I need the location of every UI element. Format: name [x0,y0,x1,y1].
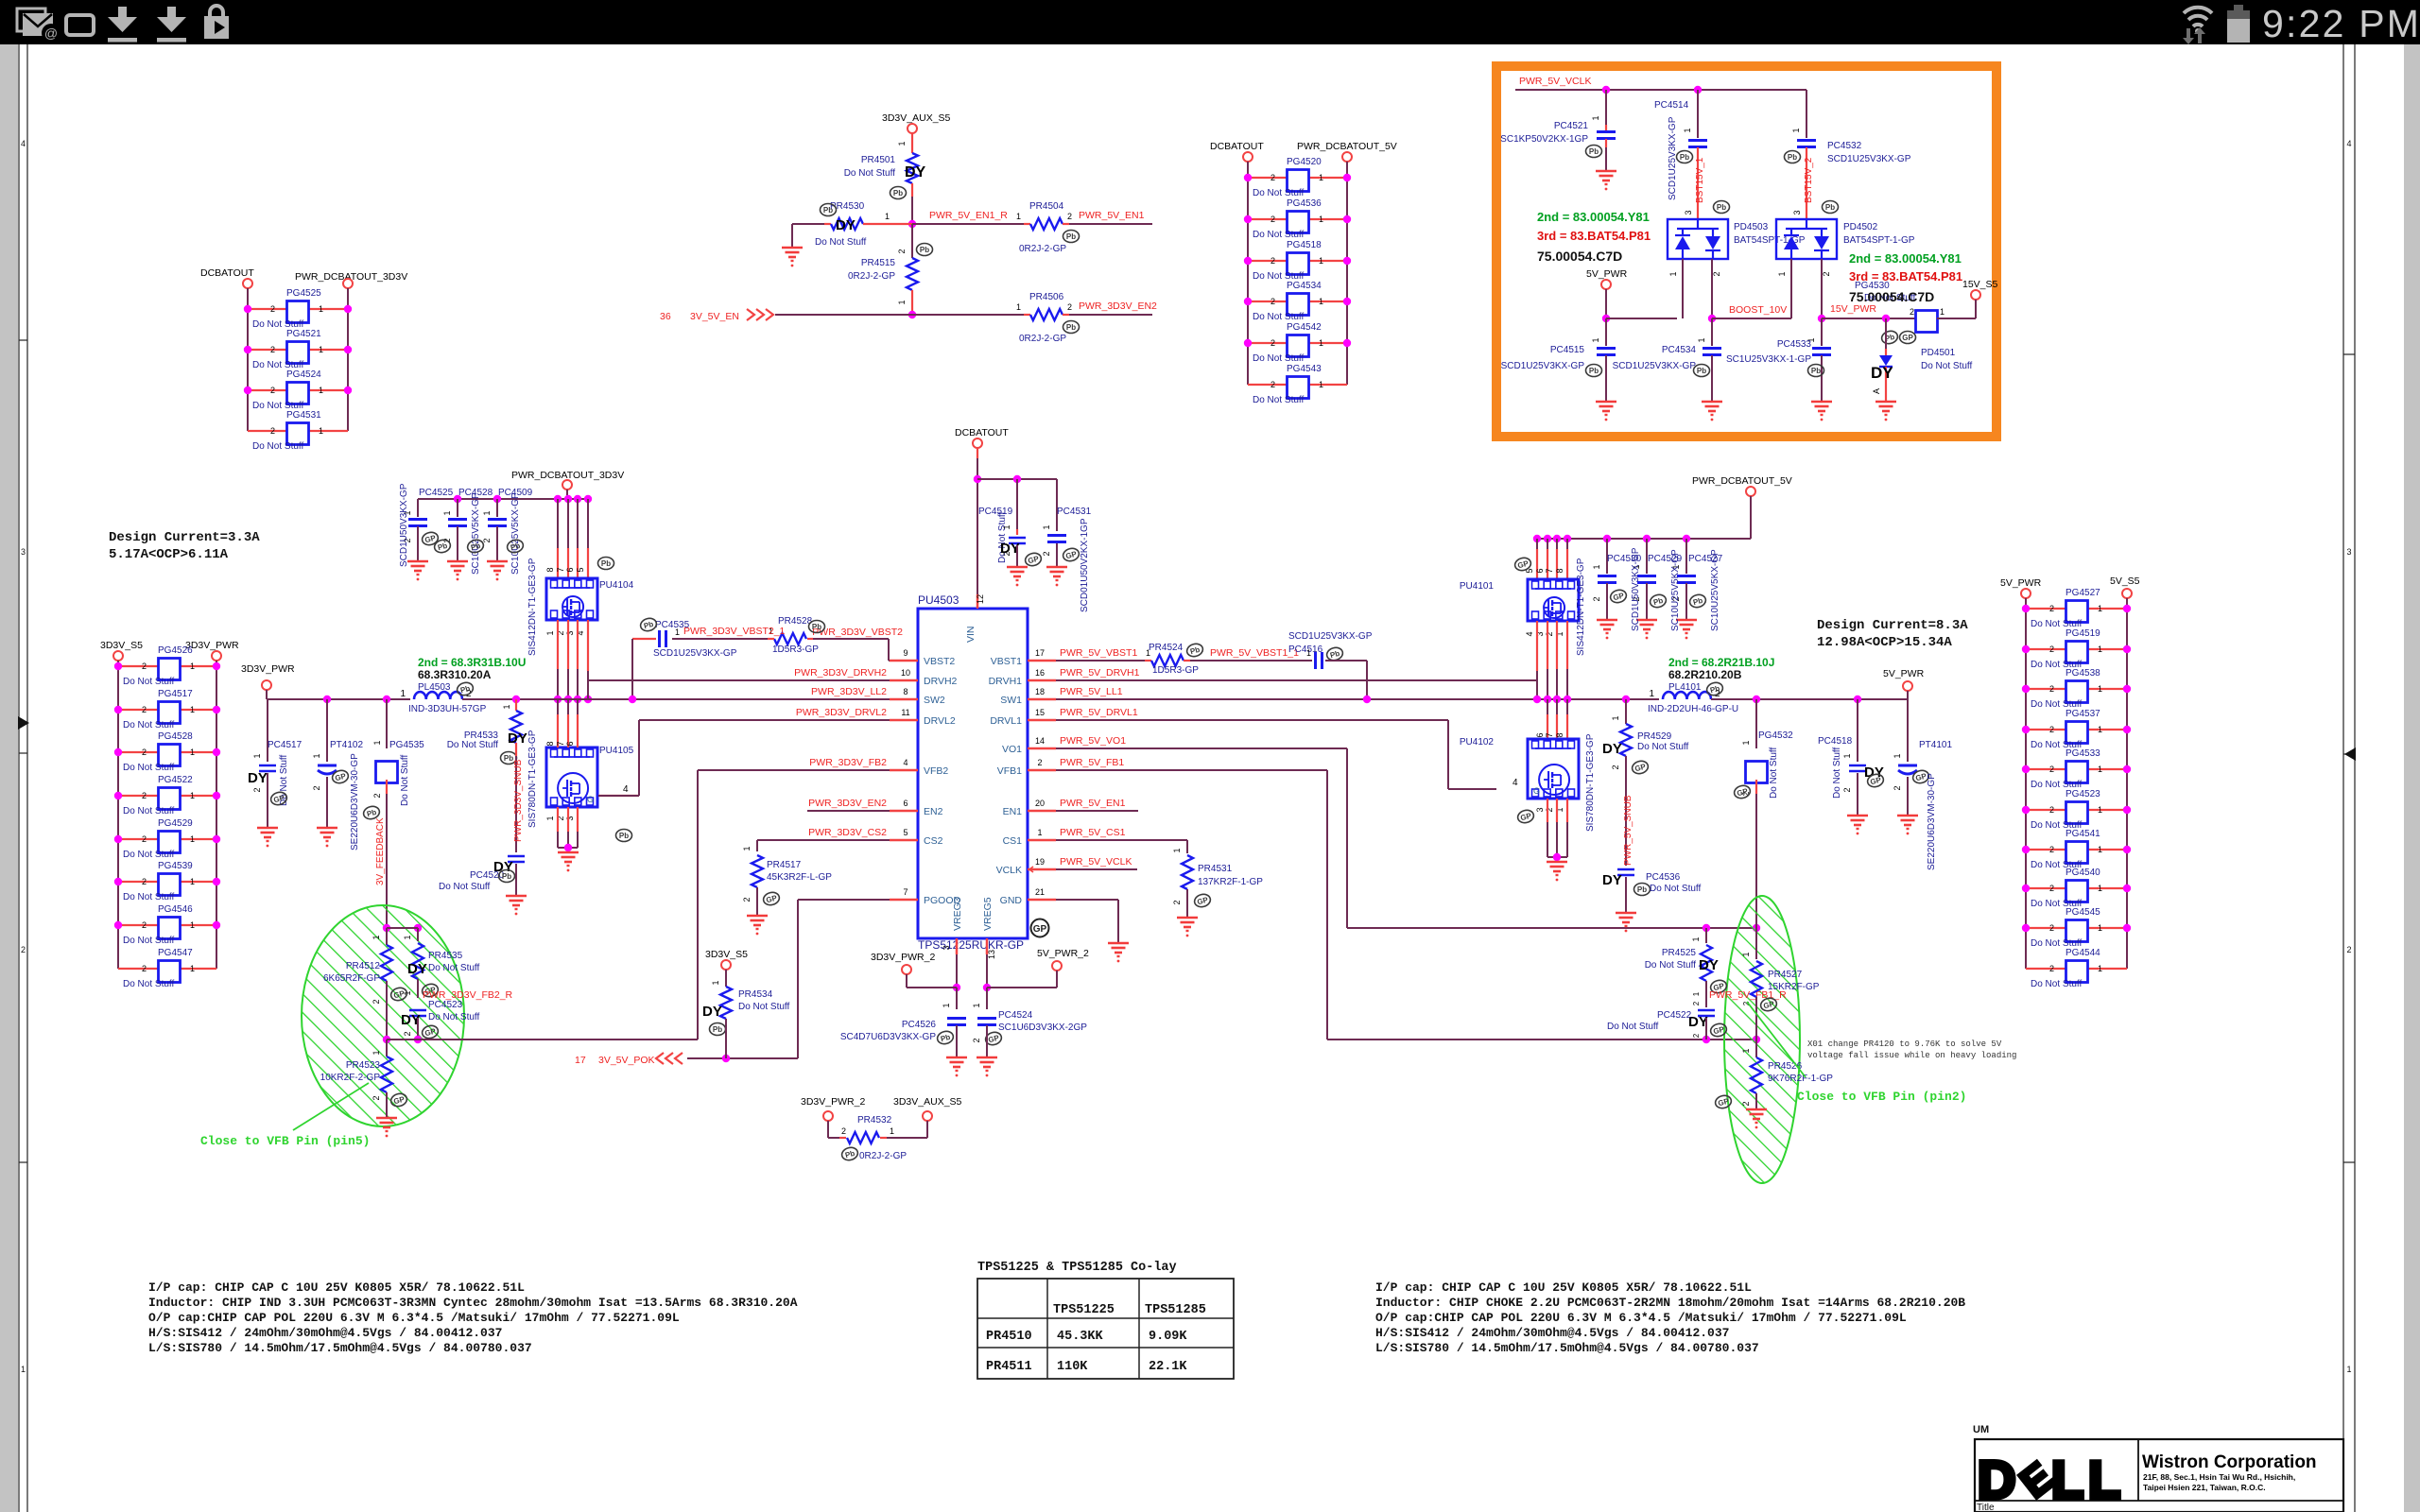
svg-text:2: 2 [270,304,275,314]
svg-text:1: 1 [897,141,907,146]
svg-text:DY: DY [508,730,527,747]
svg-text:2: 2 [1910,307,1914,317]
svg-text:2: 2 [1692,1001,1701,1005]
svg-text:PWR_5V_VCLK: PWR_5V_VCLK [1519,76,1591,87]
svg-text:PWR_3D3V_DRVH2: PWR_3D3V_DRVH2 [794,667,887,679]
svg-text:PG4537: PG4537 [2066,709,2100,719]
svg-text:45K3R2F-L-GP: 45K3R2F-L-GP [767,872,832,883]
svg-text:6K65R2F-GP: 6K65R2F-GP [323,973,380,984]
svg-text:PC4525: PC4525 [419,488,454,498]
svg-text:5: 5 [903,828,907,837]
svg-text:2: 2 [142,747,147,757]
svg-text:SW2: SW2 [924,695,945,706]
svg-text:CS2: CS2 [924,835,943,847]
svg-text:1: 1 [252,753,262,758]
svg-text:3: 3 [1535,807,1545,812]
svg-text:2: 2 [2049,725,2054,734]
svg-text:2: 2 [142,877,147,886]
svg-text:2: 2 [142,661,147,671]
svg-text:Do Not Stuff: Do Not Stuff [123,850,175,860]
svg-text:PC4514: PC4514 [1654,100,1689,111]
svg-text:1: 1 [1319,380,1323,389]
svg-text:TPS51225RUKR-GP: TPS51225RUKR-GP [918,938,1024,952]
svg-text:1: 1 [372,740,382,745]
svg-text:1: 1 [482,510,492,515]
svg-text:SC10U25V5KX-GP: SC10U25V5KX-GP [471,492,481,575]
svg-text:SCD1U25V3KX-GP: SCD1U25V3KX-GP [1288,631,1373,642]
svg-text:DRVL1: DRVL1 [990,715,1022,727]
svg-text:Close to VFB Pin (pin5): Close to VFB Pin (pin5) [200,1134,370,1148]
svg-text:10: 10 [901,668,910,678]
svg-text:0R2J-2-GP: 0R2J-2-GP [859,1151,907,1161]
svg-text:1: 1 [1940,307,1945,317]
svg-text:PG4542: PG4542 [1287,322,1322,333]
svg-text:3: 3 [21,547,26,557]
svg-text:VO1: VO1 [1002,744,1022,755]
svg-text:1D5R3-GP: 1D5R3-GP [772,644,819,655]
svg-text:PWR_5V_LL1: PWR_5V_LL1 [1060,686,1123,697]
svg-text:1: 1 [885,212,890,221]
svg-text:1: 1 [1319,297,1323,306]
svg-text:Do Not Stuff: Do Not Stuff [1921,361,1973,371]
svg-text:2: 2 [841,1126,846,1136]
svg-text:PWR_5V_VCLK: PWR_5V_VCLK [1060,856,1132,868]
svg-text:2: 2 [2049,845,2054,854]
svg-text:GP: GP [1902,334,1913,342]
svg-text:6: 6 [903,799,907,808]
svg-text:Do Not Stuff: Do Not Stuff [1253,230,1305,240]
svg-text:1: 1 [2098,964,2102,973]
svg-text:20: 20 [1035,799,1045,808]
svg-text:Pb: Pb [812,623,821,631]
svg-text:2: 2 [403,1031,412,1036]
svg-text:2: 2 [482,538,492,542]
svg-text:PR4527: PR4527 [1768,970,1803,980]
svg-text:3D3V_S5: 3D3V_S5 [100,640,143,651]
svg-text:Pb: Pb [1680,153,1689,162]
svg-text:1: 1 [1591,337,1600,342]
svg-text:PC4518: PC4518 [1818,736,1853,747]
svg-text:1: 1 [442,510,452,515]
svg-text:PWR_5V_EN1: PWR_5V_EN1 [1060,798,1126,809]
svg-text:75.00054.C7D: 75.00054.C7D [1537,249,1622,264]
svg-text:IND-3D3UH-57GP: IND-3D3UH-57GP [408,704,487,714]
svg-text:16: 16 [1035,668,1045,678]
svg-text:Taipei Hsien 221, Taiwan, R.O.: Taipei Hsien 221, Taiwan, R.O.C. [2143,1483,2266,1492]
svg-text:2: 2 [1545,631,1554,636]
svg-text:TPS51285: TPS51285 [1145,1303,1206,1317]
svg-text:7: 7 [556,741,565,746]
svg-text:45.3KK: 45.3KK [1057,1330,1104,1344]
svg-text:2: 2 [2049,684,2054,694]
svg-text:1: 1 [1319,338,1323,348]
svg-text:3D3V_PWR: 3D3V_PWR [241,663,295,675]
svg-text:PR4525: PR4525 [1662,948,1697,958]
svg-text:1: 1 [319,304,323,314]
svg-text:PG4522: PG4522 [158,775,193,785]
svg-text:7: 7 [903,887,907,897]
svg-text:1: 1 [2098,805,2102,815]
svg-text:PG4518: PG4518 [1287,240,1322,250]
svg-text:9:22 PM: 9:22 PM [2262,2,2420,45]
svg-text:0R2J-2-GP: 0R2J-2-GP [1019,244,1066,254]
svg-text:1: 1 [1683,128,1692,132]
svg-text:1: 1 [1668,271,1678,276]
svg-text:2: 2 [1611,765,1620,769]
svg-text:SC1KP50V2KX-1GP: SC1KP50V2KX-1GP [1500,134,1588,145]
svg-text:L/S:SIS780 / 14.5mOhm/17.5mOhm: L/S:SIS780 / 14.5mOhm/17.5mOhm@4.5Vgs / … [148,1341,532,1355]
svg-text:Do Not Stuff: Do Not Stuff [1769,747,1779,799]
svg-text:1: 1 [1319,256,1323,266]
svg-text:1: 1 [2098,845,2102,854]
svg-text:PG4543: PG4543 [1287,364,1322,374]
svg-text:PU4101: PU4101 [1460,581,1495,592]
svg-text:4: 4 [2346,139,2351,148]
svg-text:PR4501: PR4501 [861,155,896,165]
svg-text:Pb: Pb [893,189,903,198]
svg-text:Do Not Stuff: Do Not Stuff [1253,353,1305,364]
svg-text:PU4102: PU4102 [1460,737,1495,747]
svg-text:Do Not Stuff: Do Not Stuff [738,1002,790,1012]
svg-text:18: 18 [1035,687,1045,696]
svg-text:SIS412DN-T1-GE3-GP: SIS412DN-T1-GE3-GP [1576,558,1586,656]
svg-text:DY: DY [1602,741,1622,757]
svg-text:PR4529: PR4529 [1637,731,1672,742]
svg-text:3D3V_PWR_2: 3D3V_PWR_2 [801,1096,865,1108]
svg-text:2nd = 68.2R21B.10J: 2nd = 68.2R21B.10J [1668,656,1774,669]
svg-text:Pb: Pb [1589,367,1599,375]
svg-text:PL4101: PL4101 [1668,682,1702,693]
svg-text:2: 2 [270,345,275,354]
svg-text:PG4520: PG4520 [1287,157,1322,167]
svg-text:1: 1 [942,1003,951,1007]
svg-text:22.1K: 22.1K [1149,1360,1187,1374]
svg-text:4: 4 [1525,631,1534,636]
svg-text:Wistron Corporation: Wistron Corporation [2142,1452,2317,1472]
svg-text:Do Not Stuff: Do Not Stuff [1253,395,1305,405]
svg-text:1: 1 [190,747,195,757]
svg-text:3V_5V_POK: 3V_5V_POK [598,1055,655,1066]
svg-text:PG4532: PG4532 [1758,730,1793,741]
svg-text:110K: 110K [1057,1360,1088,1374]
svg-text:SC10U25V5KX-GP: SC10U25V5KX-GP [510,492,521,575]
svg-text:SC4D7U6D3V3KX-GP: SC4D7U6D3V3KX-GP [840,1032,936,1042]
svg-text:Do Not Stuff: Do Not Stuff [428,963,480,973]
svg-text:PG4539: PG4539 [158,861,193,871]
svg-text:PT4102: PT4102 [330,740,363,750]
svg-text:1: 1 [711,980,720,985]
svg-text:PR4512: PR4512 [346,961,381,971]
svg-text:SCD1U25V3KX-GP: SCD1U25V3KX-GP [1827,154,1911,164]
svg-text:4: 4 [1512,778,1518,788]
svg-text:2: 2 [1002,551,1011,556]
svg-text:L/S:SIS780 / 14.5mOhm/17.5mOhm: L/S:SIS780 / 14.5mOhm/17.5mOhm@4.5Vgs / … [1375,1341,1759,1355]
svg-text:Pb: Pb [1066,232,1076,241]
svg-text:PR4515: PR4515 [861,258,896,268]
svg-text:2: 2 [1270,215,1275,224]
svg-text:2: 2 [2049,923,2054,933]
svg-text:10KR2F-2-GP: 10KR2F-2-GP [320,1073,381,1083]
svg-text:19: 19 [1035,857,1045,867]
svg-text:PG4524: PG4524 [286,369,321,380]
svg-text:1: 1 [1842,753,1852,758]
svg-text:D: D [1978,1450,2014,1509]
svg-text:DY: DY [1602,872,1622,888]
svg-text:SCD1U25V3KX-GP: SCD1U25V3KX-GP [1501,361,1585,371]
svg-text:5.17A<OCP>6.11A: 5.17A<OCP>6.11A [109,547,229,562]
svg-text:PWR_3D3V_DRVL2: PWR_3D3V_DRVL2 [796,707,887,718]
svg-text:1: 1 [1042,524,1051,529]
svg-text:2: 2 [1270,297,1275,306]
svg-text:1: 1 [190,791,195,800]
svg-text:PWR_5V_FB1: PWR_5V_FB1 [1060,757,1124,768]
svg-text:2: 2 [142,791,147,800]
svg-text:5V_S5: 5V_S5 [2110,576,2140,587]
svg-text:1: 1 [319,345,323,354]
svg-text:Do Not Stuff: Do Not Stuff [123,763,175,773]
svg-text:21F, 88, Sec.1, Hsin Tai Wu Rd: 21F, 88, Sec.1, Hsin Tai Wu Rd., Hsichih… [2143,1472,2295,1482]
svg-text:PR4535: PR4535 [428,951,463,961]
svg-text:1: 1 [897,300,907,304]
svg-text:Pb: Pb [1697,367,1706,375]
svg-text:PWR_3D3V_FB2: PWR_3D3V_FB2 [809,757,887,768]
svg-text:PC4531: PC4531 [1057,507,1092,517]
svg-text:2: 2 [142,920,147,930]
svg-text:2: 2 [1592,596,1601,601]
svg-text:5: 5 [576,567,585,572]
svg-text:2: 2 [1822,271,1831,276]
svg-text:VCLK: VCLK [996,865,1022,876]
svg-text:75.00054.C7D: 75.00054.C7D [1849,289,1934,304]
svg-text:5V_PWR: 5V_PWR [1883,668,1925,679]
svg-text:1: 1 [190,834,195,844]
svg-text:15V_S5: 15V_S5 [1962,279,1998,290]
svg-text:DY: DY [248,770,268,786]
svg-text:7: 7 [556,567,565,572]
svg-text:1: 1 [372,1050,381,1055]
svg-text:1: 1 [190,877,195,886]
svg-text:Do Not Stuff: Do Not Stuff [123,720,175,730]
svg-text:PG4519: PG4519 [2066,628,2100,639]
svg-text:PG4533: PG4533 [2066,748,2100,759]
svg-text:@: @ [44,26,58,41]
svg-text:Design Current=3.3A: Design Current=3.3A [109,530,260,545]
svg-text:DY: DY [1871,364,1893,382]
svg-text:2: 2 [1842,787,1852,792]
svg-text:5V_PWR_2: 5V_PWR_2 [1037,948,1089,959]
svg-text:1: 1 [1016,212,1021,221]
svg-text:Do Not Stuff: Do Not Stuff [1253,188,1305,198]
svg-text:1: 1 [545,816,555,820]
svg-text:1: 1 [890,1126,894,1136]
svg-text:PWR_3D3V_VBST2: PWR_3D3V_VBST2 [812,627,903,638]
svg-text:3: 3 [565,816,575,820]
svg-text:Do Not Stuff: Do Not Stuff [123,677,175,687]
svg-text:68.3R310.20A: 68.3R310.20A [418,668,492,681]
svg-text:2: 2 [1042,551,1051,556]
svg-text:SW1: SW1 [1000,695,1022,706]
svg-text:36: 36 [660,311,671,322]
svg-text:PWR_DCBATOUT_5V: PWR_DCBATOUT_5V [1692,475,1792,487]
svg-text:2: 2 [2049,884,2054,893]
svg-text:SIS780DN-T1-GE3-GP: SIS780DN-T1-GE3-GP [527,730,538,828]
svg-text:PG4544: PG4544 [2066,948,2100,958]
svg-text:2: 2 [2049,964,2054,973]
svg-text:DCBATOUT: DCBATOUT [200,267,254,279]
svg-text:G: G [587,795,594,804]
svg-text:2nd = 83.00054.Y81: 2nd = 83.00054.Y81 [1849,251,1962,266]
svg-text:Pb: Pb [1788,153,1797,162]
svg-text:Pb: Pb [601,559,611,568]
svg-text:PD4502: PD4502 [1843,222,1878,232]
svg-text:3rd = 83.BAT54.P81: 3rd = 83.BAT54.P81 [1537,229,1651,243]
svg-text:2: 2 [2346,945,2351,954]
svg-text:1: 1 [2098,725,2102,734]
svg-text:VREG5: VREG5 [982,897,994,931]
svg-text:PR4534: PR4534 [738,989,773,1000]
svg-text:PC4533: PC4533 [1777,339,1812,350]
svg-text:PU4503: PU4503 [918,593,959,607]
svg-text:VBST2: VBST2 [924,656,955,667]
svg-text:PG4545: PG4545 [2066,907,2100,918]
svg-text:3V_5V_EN: 3V_5V_EN [690,311,739,322]
svg-text:PC4532: PC4532 [1827,141,1862,151]
svg-text:Do Not Stuff: Do Not Stuff [123,892,175,902]
svg-text:Pb: Pb [1811,367,1821,375]
svg-text:DRVL2: DRVL2 [924,715,956,727]
svg-text:PWR_5V_EN1_R: PWR_5V_EN1_R [929,210,1008,221]
svg-text:VFB2: VFB2 [924,765,948,777]
svg-text:PG4529: PG4529 [158,818,193,829]
svg-text:2: 2 [1712,271,1721,276]
svg-text:VBST1: VBST1 [991,656,1022,667]
svg-text:L: L [2088,1450,2119,1509]
svg-text:2: 2 [1270,173,1275,182]
svg-text:1: 1 [1319,215,1323,224]
svg-text:1: 1 [312,753,321,758]
svg-text:0R2J-2-GP: 0R2J-2-GP [848,271,895,282]
svg-text:1: 1 [1002,524,1011,529]
svg-text:2: 2 [142,834,147,844]
svg-text:9: 9 [903,648,907,658]
svg-text:4: 4 [21,139,26,148]
svg-text:PWR_5V_CS1: PWR_5V_CS1 [1060,827,1126,838]
svg-text:17: 17 [1035,648,1045,658]
svg-text:12: 12 [976,594,985,604]
svg-text:2nd = 68.3R31B.10U: 2nd = 68.3R31B.10U [418,656,526,669]
svg-text:PC4535: PC4535 [655,620,690,630]
svg-text:PG4546: PG4546 [158,904,193,915]
svg-text:17: 17 [575,1055,586,1066]
svg-text:UM: UM [1973,1424,1989,1435]
svg-text:Pb: Pb [504,754,513,763]
svg-text:PG4528: PG4528 [158,731,193,742]
svg-text:Pb: Pb [1717,203,1726,212]
svg-text:Do Not Stuff: Do Not Stuff [1832,747,1842,799]
svg-text:2: 2 [2049,765,2054,774]
svg-text:1: 1 [742,846,752,850]
svg-text:O/P cap:CHIP CAP POL 220U 6.3V: O/P cap:CHIP CAP POL 220U 6.3V M 6.3*4.5… [1375,1311,1907,1325]
svg-text:3: 3 [942,945,951,950]
svg-text:Pb: Pb [1066,323,1076,332]
svg-text:1: 1 [1791,128,1801,132]
svg-text:Do Not Stuff: Do Not Stuff [123,936,175,946]
svg-text:1: 1 [1691,936,1701,941]
svg-text:PC4536: PC4536 [1646,872,1681,883]
svg-text:4: 4 [623,784,629,795]
svg-text:Do Not Stuff: Do Not Stuff [1253,312,1305,322]
svg-text:PG4538: PG4538 [2066,668,2100,679]
svg-text:PC4519: PC4519 [978,507,1013,517]
svg-text:Pb: Pb [713,1025,722,1034]
svg-text:137KR2F-1-GP: 137KR2F-1-GP [1198,877,1263,887]
svg-text:1: 1 [319,426,323,436]
svg-text:SCD01U50V2KX-1GP: SCD01U50V2KX-1GP [1080,518,1090,612]
svg-text:PU4105: PU4105 [599,746,634,756]
svg-text:Do Not Stuff: Do Not Stuff [1650,884,1702,894]
svg-text:3D3V_PWR: 3D3V_PWR [185,640,239,651]
svg-text:2: 2 [1172,900,1182,904]
svg-text:15V_PWR: 15V_PWR [1830,303,1876,315]
svg-text:3D3V_AUX_S5: 3D3V_AUX_S5 [882,112,951,124]
svg-text:VFB1: VFB1 [997,765,1022,777]
svg-text:2: 2 [897,249,907,253]
svg-text:PC4522: PC4522 [1657,1010,1692,1021]
svg-text:G: G [1533,786,1540,796]
svg-text:SIS780DN-T1-GE3-GP: SIS780DN-T1-GE3-GP [1585,733,1596,832]
svg-text:TPS51225: TPS51225 [1053,1303,1115,1317]
svg-text:PR4504: PR4504 [1029,201,1064,212]
svg-text:2: 2 [2049,604,2054,613]
svg-text:1: 1 [1741,952,1751,956]
svg-text:1: 1 [502,704,511,709]
svg-text:Pb: Pb [823,206,833,215]
svg-text:7: 7 [1545,732,1554,737]
svg-text:Pb: Pb [502,872,511,881]
svg-text:voltage fall issue while on he: voltage fall issue while on heavy loadin… [1807,1051,2016,1060]
svg-text:PC4524: PC4524 [998,1010,1033,1021]
svg-text:1: 1 [2098,604,2102,613]
svg-text:DY: DY [702,1004,722,1020]
svg-text:PT4101: PT4101 [1919,740,1952,750]
svg-text:SCD1U25V3KX-GP: SCD1U25V3KX-GP [653,648,737,659]
svg-text:14: 14 [1035,736,1045,746]
svg-text:PR4523: PR4523 [346,1060,381,1071]
svg-text:2: 2 [372,1095,381,1100]
svg-text:2: 2 [252,787,262,792]
svg-text:8: 8 [545,741,555,746]
svg-text:1: 1 [190,705,195,714]
svg-text:PWR_5V_EN1: PWR_5V_EN1 [1079,210,1145,221]
svg-text:PG4536: PG4536 [1287,198,1322,209]
svg-text:PC4515: PC4515 [1550,345,1585,355]
svg-text:2: 2 [142,705,147,714]
svg-text:2: 2 [1067,212,1072,221]
svg-text:Pb: Pb [1637,885,1647,894]
svg-text:1: 1 [2098,765,2102,774]
svg-text:PG4540: PG4540 [2066,868,2100,878]
svg-text:2: 2 [742,897,752,902]
svg-text:8: 8 [1555,732,1564,737]
svg-text:2: 2 [1692,1033,1701,1038]
svg-text:PWR_5V_DRVH1: PWR_5V_DRVH1 [1060,667,1140,679]
svg-text:2: 2 [270,426,275,436]
svg-text:PWR_5V_VBST1_1: PWR_5V_VBST1_1 [1210,647,1299,659]
svg-text:1: 1 [190,964,195,973]
svg-text:SE220U6D3VM-30-GP: SE220U6D3VM-30-GP [350,753,360,850]
svg-text:PL4503: PL4503 [418,682,451,693]
svg-text:GP: GP [1033,924,1047,935]
